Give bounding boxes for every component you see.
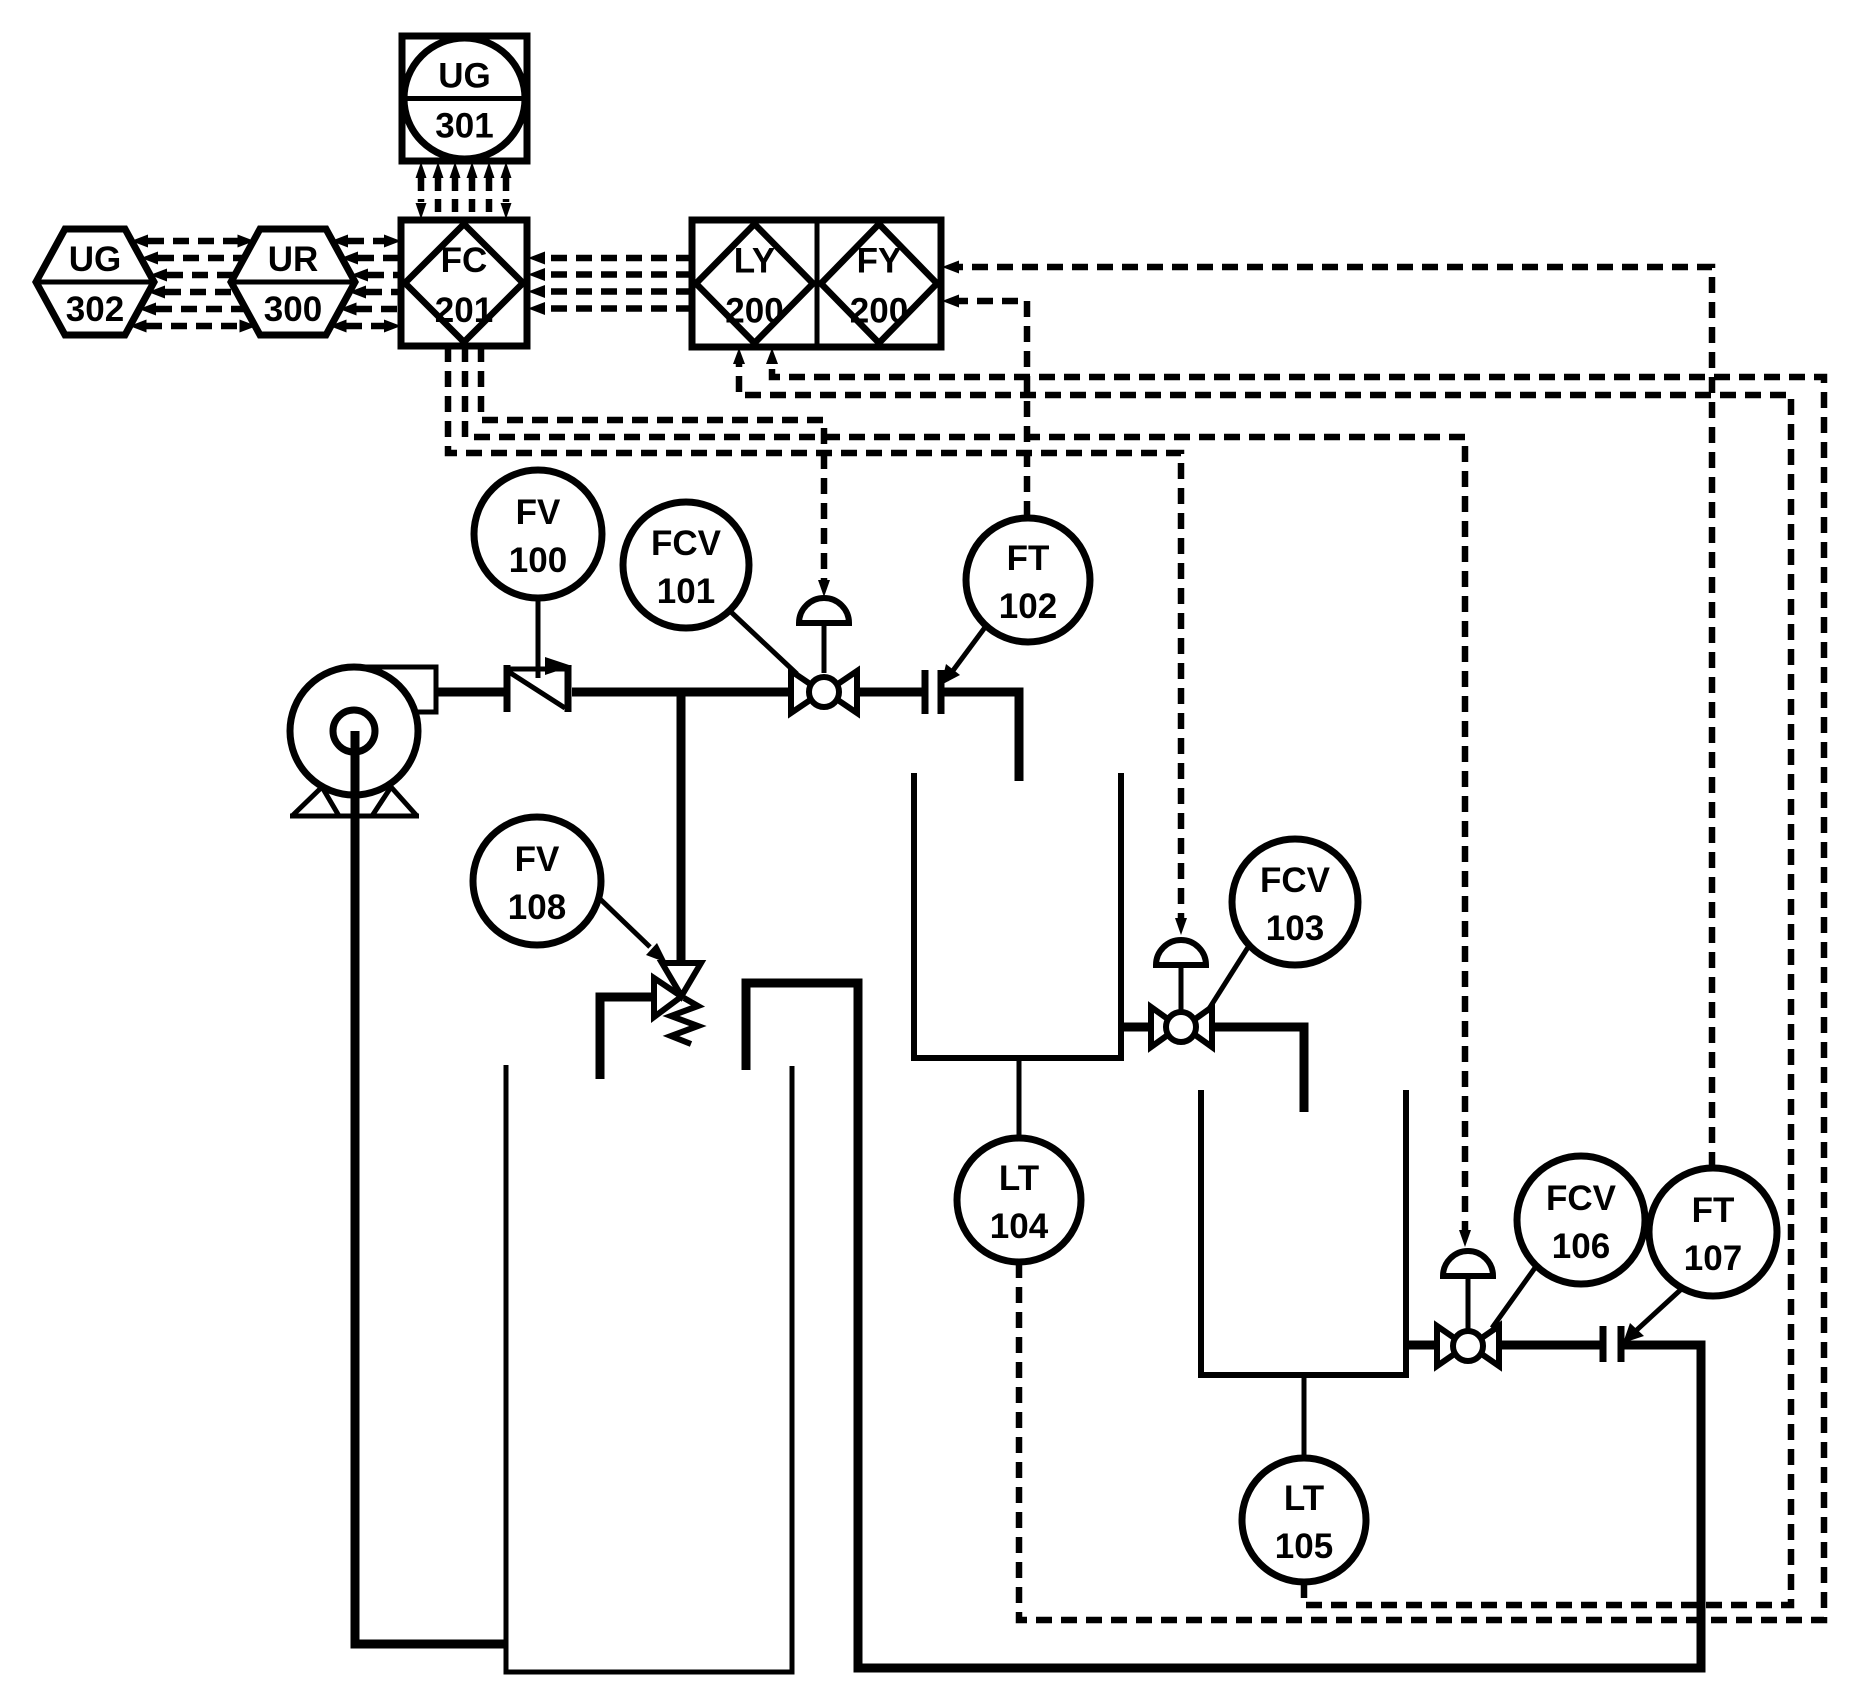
svg-text:FT: FT: [1692, 1191, 1735, 1230]
svg-text:FCV: FCV: [1546, 1179, 1617, 1218]
svg-text:106: 106: [1552, 1227, 1610, 1266]
svg-text:FC: FC: [441, 241, 488, 280]
svg-text:FV: FV: [515, 840, 560, 879]
svg-text:UG: UG: [438, 57, 491, 96]
svg-text:FY: FY: [857, 242, 902, 281]
svg-text:LT: LT: [999, 1159, 1039, 1198]
svg-text:FCV: FCV: [1260, 861, 1331, 900]
svg-text:LY: LY: [734, 242, 776, 281]
svg-text:101: 101: [657, 572, 715, 611]
svg-text:301: 301: [435, 107, 493, 146]
svg-text:UR: UR: [268, 240, 319, 279]
svg-text:200: 200: [850, 292, 908, 331]
svg-text:FV: FV: [516, 493, 561, 532]
svg-text:201: 201: [435, 291, 493, 330]
svg-text:100: 100: [509, 541, 567, 580]
svg-text:UG: UG: [69, 240, 122, 279]
svg-text:102: 102: [999, 587, 1057, 626]
svg-text:302: 302: [66, 290, 124, 329]
svg-text:104: 104: [990, 1207, 1049, 1246]
svg-text:103: 103: [1266, 909, 1324, 948]
svg-text:300: 300: [264, 290, 322, 329]
svg-text:107: 107: [1684, 1239, 1742, 1278]
svg-text:LT: LT: [1284, 1479, 1324, 1518]
svg-text:FT: FT: [1007, 539, 1050, 578]
svg-text:105: 105: [1275, 1527, 1333, 1566]
svg-text:FCV: FCV: [651, 524, 722, 563]
svg-text:200: 200: [725, 292, 783, 331]
svg-text:108: 108: [508, 888, 566, 927]
